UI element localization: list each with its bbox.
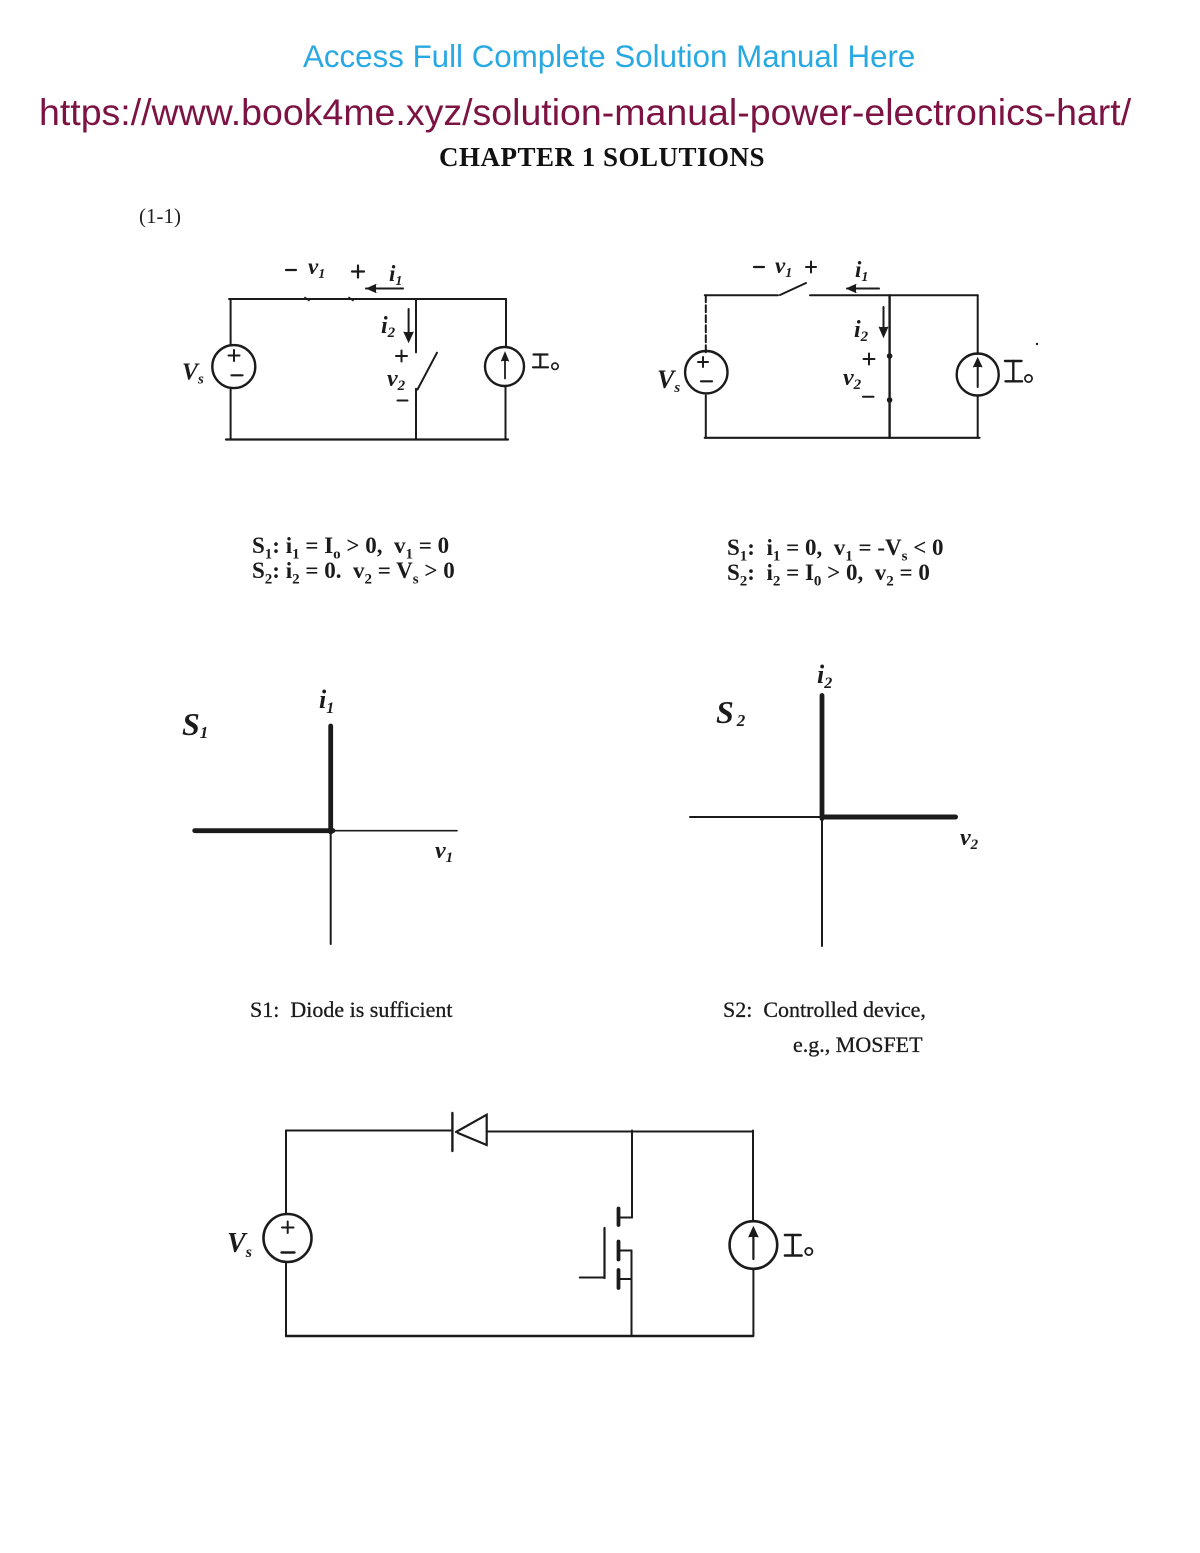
URL maroon line — [39, 91, 1131, 134]
svg-text:i1: i1 — [855, 257, 868, 285]
axis v1 negative (thick) — [195, 828, 333, 833]
wire top c1 — [229, 298, 506, 300]
wire right upper c2 — [977, 295, 979, 354]
MOSFET Q1 source stub — [620, 1278, 632, 1280]
current source Io c2 — [957, 354, 999, 396]
switch S1 blade c2 — [780, 283, 806, 295]
condition text left — [252, 533, 455, 584]
MOSFET Q1 drain lead — [631, 1131, 633, 1218]
diode D1 — [451, 1113, 453, 1151]
wire right c3 — [752, 1131, 754, 1222]
wire left lower c3 — [285, 1262, 287, 1336]
wire left c3 — [285, 1131, 287, 1215]
wire bottom c3 — [286, 1335, 753, 1337]
label - v1 + c1 — [286, 269, 296, 271]
svg-text:v2: v2 — [387, 366, 406, 394]
svg-text:i2: i2 — [381, 313, 396, 341]
axis v2 negative (thin) — [690, 816, 822, 818]
wire top left c3 — [286, 1130, 452, 1132]
axis i2 positive (thick) — [820, 696, 825, 819]
wire left c2 — [705, 295, 707, 353]
svg-text:v1: v1 — [775, 253, 792, 281]
label - v1 + c2 — [754, 266, 764, 268]
wire right lower c3 — [752, 1269, 754, 1336]
label Io c2 — [1005, 361, 1032, 382]
caption S2 line2 — [793, 1032, 923, 1058]
MOSFET Q1 body bar — [617, 1242, 621, 1260]
condition text right — [727, 535, 944, 586]
svg-text:i1: i1 — [319, 685, 334, 717]
svg-text:v2: v2 — [960, 825, 979, 853]
node v2 labels c1 — [396, 351, 407, 362]
axis i2 negative (thin) — [821, 819, 823, 947]
caption S2 — [723, 997, 926, 1023]
MOSFET Q1 gate — [603, 1228, 605, 1278]
axis i1 negative (thin) — [330, 832, 332, 944]
wire right lower c2 — [977, 396, 979, 438]
current source Io c1 — [485, 347, 524, 386]
wire middle upper c1 — [415, 299, 417, 352]
chapter title — [439, 142, 765, 173]
svg-text:Vs: Vs — [657, 365, 680, 396]
problem number — [139, 204, 181, 229]
wire bottom c1 — [226, 438, 508, 440]
node v2 labels c2 — [864, 354, 875, 365]
svg-text:S1: S1 — [182, 706, 208, 742]
current i2 arrow c1 — [408, 309, 410, 339]
current source Io c3 — [730, 1221, 778, 1269]
svg-text:Vs: Vs — [182, 360, 204, 388]
svg-text:i2: i2 — [817, 660, 832, 692]
voltage source Vs c3 — [264, 1214, 312, 1262]
svg-text:S2: S2 — [716, 694, 746, 730]
svg-text:i1: i1 — [389, 261, 402, 289]
MOSFET Q1 source bar — [617, 1270, 621, 1288]
axis v1 positive (thin) — [333, 830, 457, 832]
svg-text:v1: v1 — [435, 838, 453, 866]
MOSFET Q1 source lead — [631, 1251, 633, 1337]
wire right upper c1 — [505, 299, 507, 347]
wire top right c3 — [487, 1131, 753, 1133]
svg-text:i2: i2 — [854, 317, 869, 345]
axis i1 positive (thick) — [328, 726, 333, 832]
wire top left c2 — [705, 294, 778, 296]
wire top right c2 — [810, 294, 978, 296]
axis v2 positive (thick) — [822, 815, 956, 820]
wire right lower c1 — [505, 387, 507, 440]
wire left lower c1 — [230, 388, 232, 440]
MOSFET Q1 drain bar — [617, 1209, 621, 1226]
label Io c1 — [533, 355, 558, 370]
wire left lower c2 — [705, 396, 707, 438]
MOSFET Q1 body stub — [620, 1250, 632, 1252]
svg-text:Vs: Vs — [227, 1228, 252, 1261]
wire middle c2 — [888, 295, 890, 438]
label Io c3 — [785, 1235, 812, 1256]
voltage source Vs c1 — [212, 345, 255, 388]
svg-text:v1: v1 — [308, 254, 325, 282]
voltage source Vs c2 — [685, 351, 727, 393]
svg-text:v2: v2 — [843, 365, 862, 393]
header cyan line — [303, 39, 915, 75]
current i2 arrow c2 — [883, 307, 885, 334]
caption S1 — [250, 997, 452, 1023]
wire middle lower c1 — [415, 389, 417, 440]
wire left c1 — [230, 299, 232, 345]
switch S2 blade c1 — [418, 353, 438, 390]
wire bottom c2 — [705, 437, 980, 439]
